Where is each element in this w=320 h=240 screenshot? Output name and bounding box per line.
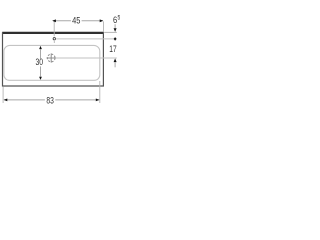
- ceramic left edge: [2, 32, 4, 86]
- dim 83 (bottom): [3, 81, 100, 106]
- svg-text:30: 30: [36, 57, 44, 68]
- dim 17 (right): [109, 44, 116, 67]
- ceramic rear (top) edge: [2, 32, 104, 34]
- svg-text:17: 17: [109, 44, 116, 55]
- leader: tap hole to right: [56, 38, 117, 40]
- svg-text:5: 5: [118, 16, 121, 22]
- leader: top edge to right: [104, 31, 117, 33]
- leader: drain to right: [56, 57, 117, 59]
- dim 6.5 (right top): [113, 15, 121, 41]
- dim 45 (top): [52, 16, 103, 44]
- svg-text:83: 83: [46, 95, 54, 106]
- bowl outline: [4, 45, 100, 80]
- ceramic front (bottom) edge: [2, 85, 104, 87]
- tap hole: [53, 37, 56, 40]
- svg-text:45: 45: [72, 16, 80, 27]
- drain: [47, 53, 56, 62]
- dim 30 (middle vertical): [36, 46, 44, 80]
- ceramic right edge: [102, 33, 104, 87]
